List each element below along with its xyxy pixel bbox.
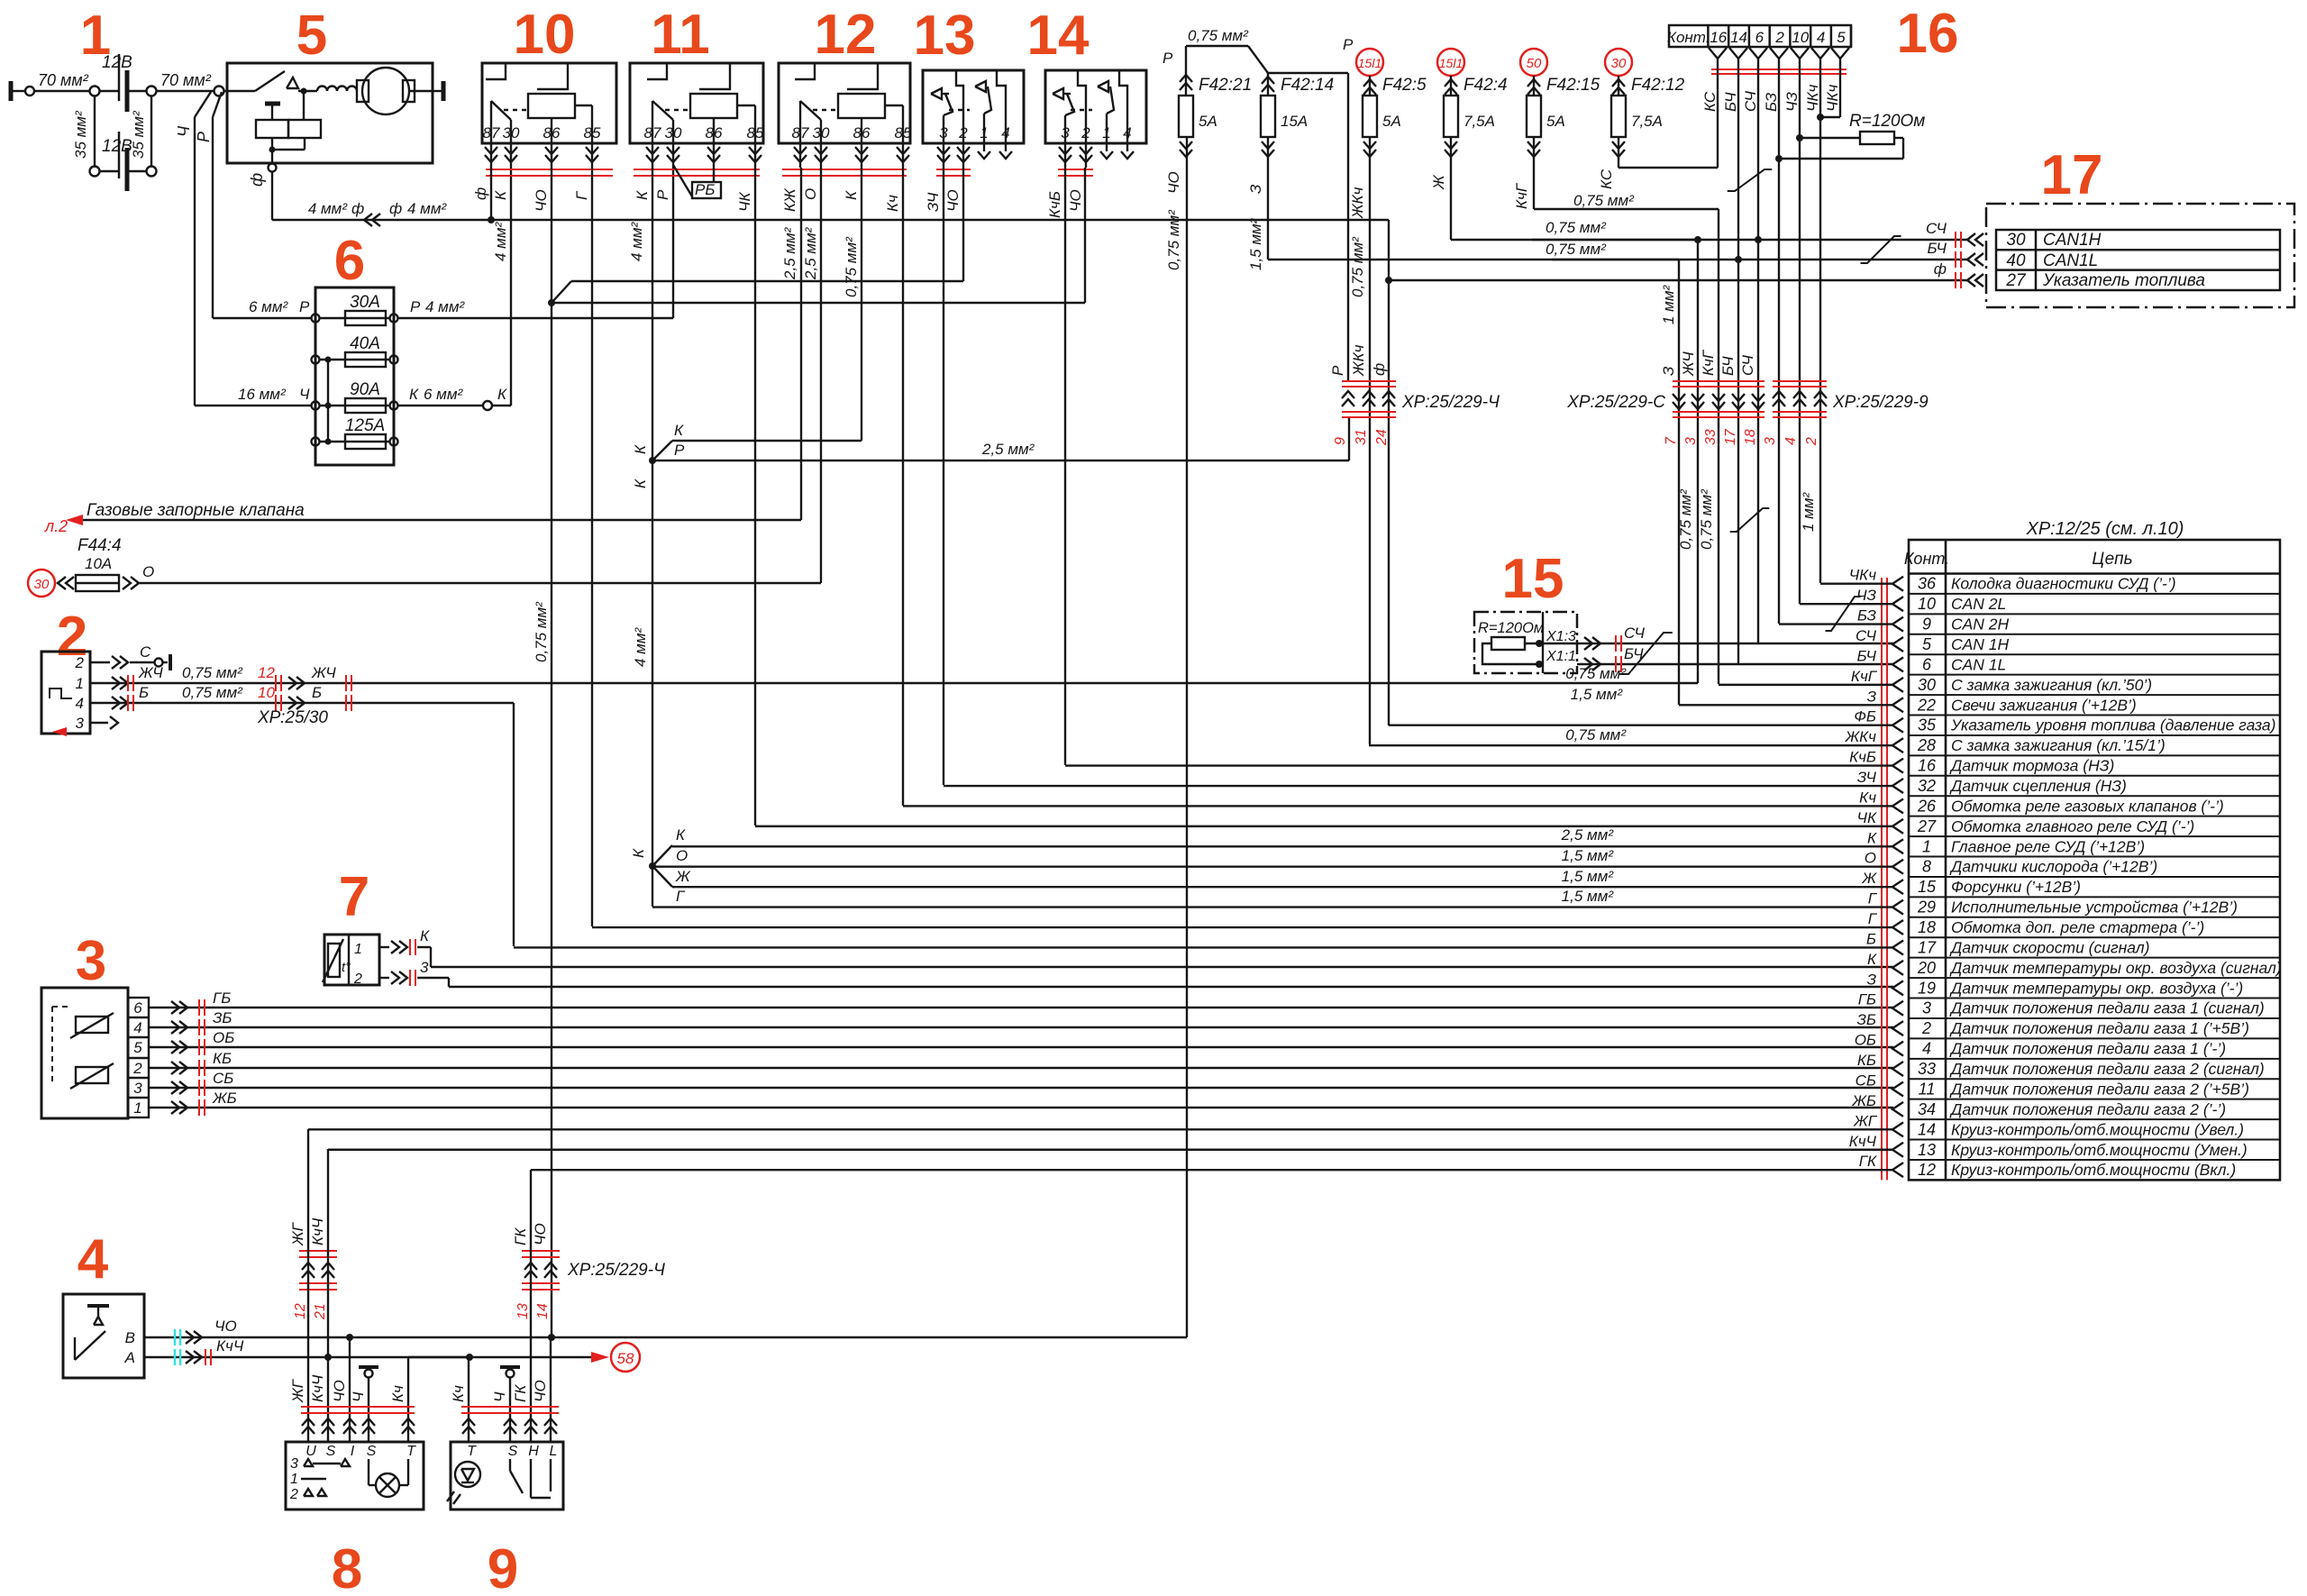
svg-text:10: 10 — [514, 4, 576, 66]
wire БЗ connector16 pin2 to table row9 — [1775, 68, 1783, 624]
connector unit 2 — [41, 652, 90, 736]
svg-text:S: S — [508, 1444, 518, 1459]
svg-text:Кч: Кч — [884, 195, 901, 212]
svg-text:ЧЗ: ЧЗ — [1856, 587, 1876, 604]
unit 9 pin wires with connector marks — [450, 1170, 559, 1442]
wire К branch to relay12-86 — [652, 168, 862, 461]
svg-text:4: 4 — [76, 695, 84, 712]
svg-text:СБ: СБ — [213, 1070, 233, 1087]
svg-text:ЖКч: ЖКч — [1349, 187, 1366, 219]
svg-text:Ч: Ч — [491, 1391, 508, 1402]
wire КчБ to table row 16 — [1065, 749, 1903, 773]
svg-text:2,5 мм²: 2,5 мм² — [1561, 826, 1615, 844]
wire О F44:4 to relay12-30 — [140, 168, 821, 583]
wire ЧК relay11-85 to table row27 — [754, 168, 756, 825]
svg-text:15А: 15А — [1281, 113, 1308, 130]
svg-text:СЧ: СЧ — [1624, 625, 1646, 642]
svg-text:125А: 125А — [345, 416, 385, 435]
wire ЧКч connector16 pin5 — [1820, 68, 1840, 117]
svg-text:30: 30 — [34, 577, 50, 592]
svg-text:13: 13 — [914, 5, 976, 67]
svg-text:10: 10 — [1792, 29, 1809, 46]
svg-text:Газовые запорные клапана: Газовые запорные клапана — [87, 501, 305, 520]
svg-text:4: 4 — [78, 1228, 109, 1290]
svg-text:ЧО: ЧО — [214, 1318, 237, 1335]
svg-text:85: 85 — [584, 124, 601, 141]
wire З sensor7 to table row19 — [379, 959, 1893, 987]
svg-text:10: 10 — [258, 684, 275, 701]
switch unit 4 — [63, 1294, 144, 1378]
svg-text:Ж: Ж — [1430, 174, 1447, 190]
svg-text:4 мм²: 4 мм² — [308, 200, 348, 217]
fuse box 6 — [312, 287, 398, 465]
fuse F42:5 5А with terminal 15/1 — [1349, 49, 1427, 297]
wire Р feed to fuses F42:21 F42:14 — [1163, 27, 1354, 381]
svg-text:ЧО: ЧО — [532, 1380, 549, 1402]
svg-text:30: 30 — [813, 124, 830, 141]
svg-text:Свечи зажигания (’+12В’): Свечи зажигания (’+12В’) — [1951, 696, 2137, 714]
svg-text:К: К — [409, 386, 419, 403]
svg-text:л.2: л.2 — [44, 517, 68, 535]
svg-text:35 мм²: 35 мм² — [72, 110, 89, 159]
svg-text:5А: 5А — [1382, 113, 1401, 130]
svg-text:ЧК: ЧК — [1857, 809, 1877, 826]
svg-text:4 мм²: 4 мм² — [628, 222, 645, 261]
svg-text:Б: Б — [139, 684, 149, 701]
svg-text:РБ: РБ — [695, 181, 715, 198]
svg-text:С замка зажигания (кл.’15/1’): С замка зажигания (кл.’15/1’) — [1951, 736, 2166, 754]
svg-text:16 мм²: 16 мм² — [238, 386, 287, 403]
wire З to table row 19 — [1828, 971, 1903, 995]
svg-text:6 мм²: 6 мм² — [249, 298, 288, 315]
svg-text:7,5А: 7,5А — [1464, 113, 1495, 130]
svg-text:F42:5: F42:5 — [1382, 76, 1427, 95]
svg-text:ЧО: ЧО — [331, 1380, 348, 1402]
wire ФБ to table row 35 — [1389, 708, 1903, 733]
wire КС F42:12 to connector 16 — [1619, 137, 1718, 168]
svg-text:ГК: ГК — [512, 1384, 529, 1402]
shield slash CAN near unit17 — [1861, 236, 1901, 263]
svg-text:Датчик положения педали газа 1: Датчик положения педали газа 1 (сигнал) — [1949, 999, 2265, 1017]
relay 10 — [482, 63, 616, 176]
svg-text:X1:3: X1:3 — [1546, 629, 1576, 644]
svg-text:ф: ф — [472, 187, 489, 200]
svg-text:КчЧ: КчЧ — [1849, 1133, 1877, 1150]
wire ЧО lower branch to switch14 pin2 — [552, 168, 1085, 303]
relay 10 wire labels — [472, 187, 590, 212]
svg-text:4 мм²: 4 мм² — [407, 200, 447, 217]
wire КчГ F42:15 to XP:25/229-С pin33 — [1534, 137, 1719, 684]
wire Кч relay12-85 to table row26 — [902, 168, 904, 806]
wire БЧ to table row 6 — [1828, 647, 1903, 671]
wire size labels near table — [1561, 665, 1628, 905]
svg-text:Ч: Ч — [175, 125, 193, 137]
wire З to table row 22 — [1679, 688, 1903, 712]
svg-text:9: 9 — [488, 1538, 518, 1596]
wire ф starter to relay10-87 and XP connector — [272, 168, 1389, 725]
svg-text:3: 3 — [76, 930, 106, 992]
wire ЧО bus from switch4 B to F42:21 — [144, 137, 1187, 1345]
svg-text:ХР:25/30: ХР:25/30 — [257, 708, 328, 727]
svg-text:А: А — [124, 1349, 135, 1366]
svg-text:24: 24 — [1374, 429, 1390, 446]
wire Б to table row 17 — [514, 930, 1903, 954]
svg-text:ОБ: ОБ — [1855, 1032, 1876, 1049]
wire Р branch to XP:25/229-Ч pin9 — [652, 416, 1349, 461]
svg-text:31: 31 — [1354, 429, 1369, 445]
svg-text:Ж: Ж — [1861, 870, 1877, 887]
svg-text:ЖГ: ЖГ — [289, 1378, 306, 1403]
wire CAN1L БЧ to unit17 — [1546, 241, 1967, 260]
svg-text:13: 13 — [515, 1303, 531, 1319]
starter unit 5 — [227, 63, 443, 187]
svg-text:20: 20 — [1917, 959, 1936, 977]
svg-text:БЧ: БЧ — [1856, 647, 1876, 664]
svg-text:6: 6 — [334, 230, 365, 292]
svg-text:5А: 5А — [1546, 113, 1565, 130]
fuse F42:21 5А — [1165, 46, 1252, 270]
connector XP:25/229-Ч bottom, wires ГК ЧО — [512, 1223, 665, 1319]
svg-text:0,75 мм²: 0,75 мм² — [1565, 665, 1627, 682]
svg-text:XP:25/229-С: XP:25/229-С — [1566, 393, 1665, 412]
svg-text:30: 30 — [1918, 676, 1936, 694]
svg-text:28: 28 — [1917, 736, 1936, 754]
svg-text:КБ: КБ — [1857, 1052, 1876, 1069]
wire ЖКч F42:5 to table row28 — [1369, 137, 1371, 744]
svg-text:ЖБ: ЖБ — [212, 1090, 237, 1107]
svg-text:ЖКч: ЖКч — [1845, 728, 1877, 745]
connector XP:25/229-Ч bottom, wires ЖГ КчЧ — [289, 1218, 337, 1320]
svg-text:11: 11 — [1919, 1080, 1936, 1098]
svg-text:О: О — [802, 188, 819, 200]
terminator R=120Ом top — [1779, 112, 1925, 159]
wire ЧК to table row 27 — [755, 809, 1903, 834]
wire ЖБ pedal sensor to table — [149, 1090, 1893, 1116]
wire О to table row 8 — [652, 850, 1903, 874]
svg-text:I: I — [351, 1444, 355, 1459]
wire Р from battery — [195, 92, 222, 318]
svg-text:ЧКч: ЧКч — [1804, 85, 1821, 112]
svg-text:1,5 мм²: 1,5 мм² — [1562, 868, 1615, 885]
svg-text:КчГ: КчГ — [1700, 349, 1717, 376]
shield slashes near table rows 10 9 — [1826, 597, 1861, 631]
svg-text:30: 30 — [665, 124, 682, 141]
svg-text:ф: ф — [1371, 363, 1388, 376]
wire К sensor7 to table row20 — [379, 927, 1893, 967]
svg-text:34: 34 — [1918, 1100, 1936, 1118]
unit 8 pin wires with connector marks — [289, 1129, 470, 1442]
svg-text:Ч: Ч — [299, 386, 310, 403]
svg-text:2: 2 — [132, 1060, 142, 1077]
svg-text:CAN 1H: CAN 1H — [1951, 635, 2010, 653]
svg-text:11: 11 — [651, 4, 710, 66]
svg-text:0,75 мм²: 0,75 мм² — [1565, 726, 1627, 743]
svg-text:F42:21: F42:21 — [1199, 76, 1252, 95]
wire КС connector16 pin16 — [1717, 68, 1719, 168]
relay 12 wire labels — [781, 187, 901, 297]
svg-text:Р: Р — [195, 132, 213, 142]
svg-text:ОБ: ОБ — [213, 1029, 234, 1046]
svg-text:0,75 мм²: 0,75 мм² — [182, 684, 243, 701]
svg-text:БЗ: БЗ — [1857, 607, 1877, 625]
wire ЗБ to table row 2 — [1828, 1011, 1903, 1035]
fuse F42:15 5А with terminal 50 — [1513, 49, 1600, 209]
fuse F42:12 7,5А with terminal 30 — [1598, 49, 1685, 189]
svg-text:15: 15 — [1918, 878, 1937, 896]
svg-text:К: К — [497, 386, 507, 403]
svg-text:5: 5 — [296, 5, 327, 67]
svg-text:К: К — [674, 422, 684, 439]
wire КчЧ to table row 13 — [328, 1133, 1903, 1157]
wire ЖКч to table row 28 — [1369, 728, 1903, 752]
wire КчБ switch14-3 to table row16 — [1064, 168, 1066, 765]
svg-text:Р: Р — [1163, 50, 1173, 67]
indicator unit 9 — [447, 1442, 563, 1509]
svg-text:85: 85 — [895, 124, 912, 141]
svg-text:ГБ: ГБ — [1858, 991, 1876, 1008]
svg-text:CAN 2L: CAN 2L — [1951, 595, 2006, 613]
svg-text:СБ: СБ — [1856, 1072, 1876, 1089]
wire СЧ to table row 5 — [1828, 627, 1903, 652]
unit17 wire entries — [1926, 220, 1983, 288]
svg-text:87: 87 — [792, 124, 809, 141]
svg-text:ЖГ: ЖГ — [289, 1221, 306, 1246]
wire comp2 pin3 stub — [90, 716, 118, 729]
svg-text:0,75 мм²: 0,75 мм² — [1677, 488, 1694, 550]
svg-text:Форсунки (’+12В’): Форсунки (’+12В’) — [1951, 878, 2081, 896]
svg-text:ЗЧ: ЗЧ — [925, 192, 942, 212]
wire БЗ to table row 9 — [1779, 607, 1903, 632]
svg-text:Р: Р — [654, 189, 671, 200]
svg-text:12В: 12В — [102, 53, 132, 72]
svg-text:Датчик тормоза (НЗ): Датчик тормоза (НЗ) — [1949, 757, 2114, 775]
node К fan-out to К,О,Ж,Г — [630, 826, 691, 907]
svg-text:Кч: Кч — [450, 1385, 467, 1402]
reference line gas shutoff valves (to sheet 2) — [44, 168, 801, 535]
svg-text:S: S — [326, 1444, 336, 1459]
svg-text:17: 17 — [1723, 428, 1738, 445]
svg-text:Р: Р — [299, 298, 310, 315]
svg-text:86: 86 — [853, 124, 871, 141]
switch 14 wire labels — [1046, 189, 1084, 218]
wire К to table row 20 — [1828, 951, 1903, 975]
wire Б comp2 pin4 to table row17 — [90, 684, 514, 946]
svg-text:30А: 30А — [350, 293, 380, 312]
svg-text:3: 3 — [420, 959, 429, 976]
svg-text:6: 6 — [1922, 655, 1932, 673]
wire ЗЧ switch13-3 to table row32 — [943, 168, 944, 785]
svg-text:КчГ: КчГ — [1851, 668, 1878, 685]
svg-text:T: T — [467, 1444, 477, 1459]
wire К 6мм² fuse90A to relay10 pin30 — [397, 168, 511, 410]
svg-text:0,75 мм²: 0,75 мм² — [843, 236, 860, 297]
svg-text:К: К — [632, 444, 649, 454]
svg-text:CAN1L: CAN1L — [2043, 251, 2098, 270]
svg-text:2,5 мм²: 2,5 мм² — [981, 441, 1035, 458]
svg-text:ЧКч: ЧКч — [1824, 85, 1841, 112]
wire ф to unit17 row27 — [1385, 277, 1967, 284]
svg-text:Колодка диагностики СУД (’-’): Колодка диагностики СУД (’-’) — [1951, 575, 2176, 593]
svg-text:1: 1 — [290, 1472, 298, 1487]
wire КчЧ from switch4 A to terminal 58 — [144, 1337, 640, 1372]
svg-text:Датчик температуры окр. воздух: Датчик температуры окр. воздуха (’-’) — [1949, 979, 2243, 997]
svg-text:CAN 1L: CAN 1L — [1951, 655, 2006, 673]
svg-text:1,5 мм²: 1,5 мм² — [1562, 888, 1615, 905]
svg-text:Кч: Кч — [389, 1385, 406, 1402]
svg-text:13: 13 — [1918, 1141, 1936, 1159]
relay 11 — [630, 63, 764, 176]
svg-text:ЖГ: ЖГ — [1853, 1112, 1878, 1129]
control unit 8 — [286, 1442, 424, 1509]
wire Ж F42:4 to XP:25/229-С pin3 — [1451, 137, 1701, 243]
svg-text:21: 21 — [313, 1303, 328, 1320]
svg-text:0,75 мм²: 0,75 мм² — [1165, 209, 1182, 270]
table ХР:12/25 frame — [1904, 540, 2280, 1180]
svg-text:Р: Р — [1329, 365, 1346, 376]
battery 1 (two 12V cells) — [11, 53, 227, 191]
svg-text:32: 32 — [1918, 777, 1936, 795]
svg-text:10: 10 — [1918, 595, 1936, 613]
svg-text:С замка зажигания (кл.’50’): С замка зажигания (кл.’50’) — [1951, 676, 2152, 694]
svg-text:1: 1 — [1102, 124, 1110, 141]
svg-text:О: О — [1865, 850, 1876, 867]
svg-text:2: 2 — [289, 1487, 298, 1502]
connector XP:25/229-9 (БЗ ЧЗ ЧКч) — [1763, 381, 1929, 446]
svg-text:33: 33 — [1918, 1060, 1936, 1078]
svg-text:ЧКч: ЧКч — [1849, 567, 1876, 584]
svg-text:Цепь: Цепь — [2092, 550, 2132, 569]
svg-text:70 мм²: 70 мм² — [38, 71, 89, 89]
svg-text:Датчик положения педали газа 2: Датчик положения педали газа 2 (’-’) — [1949, 1100, 2226, 1118]
wire Ч fusebox feed 16мм² — [195, 386, 312, 406]
svg-text:19: 19 — [1918, 979, 1936, 997]
svg-text:ЖЧ: ЖЧ — [311, 664, 336, 681]
svg-text:Указатель топлива: Указатель топлива — [2042, 271, 2205, 290]
svg-text:5: 5 — [1837, 29, 1846, 46]
svg-text:4 мм²: 4 мм² — [425, 298, 465, 315]
wire Г to table row 29 — [652, 890, 1903, 915]
table rows text — [1917, 575, 2282, 1179]
svg-text:0,75 мм²: 0,75 мм² — [533, 601, 550, 662]
svg-text:Обмотка главного реле СУД (’-’: Обмотка главного реле СУД (’-’) — [1951, 817, 2194, 835]
svg-text:15l1: 15l1 — [1439, 56, 1463, 70]
svg-text:ХР:12/25 (см. л.10): ХР:12/25 (см. л.10) — [2026, 519, 2184, 539]
svg-text:Главное реле СУД (’+12В’): Главное реле СУД (’+12В’) — [1951, 837, 2145, 855]
svg-text:27: 27 — [1917, 817, 1937, 835]
svg-text:1 мм²: 1 мм² — [1660, 285, 1677, 324]
svg-text:Б: Б — [1866, 930, 1876, 947]
svg-text:4: 4 — [1817, 29, 1825, 46]
svg-text:КБ: КБ — [213, 1050, 232, 1067]
wire ОБ to table row 4 — [1828, 1032, 1903, 1056]
svg-text:29: 29 — [1917, 898, 1936, 917]
svg-text:ЗБ: ЗБ — [213, 1009, 233, 1026]
svg-text:БЧ: БЧ — [1719, 356, 1737, 376]
shield slash CAN pair top — [1728, 169, 1773, 191]
svg-text:К: К — [1867, 829, 1877, 846]
svg-text:CAN1H: CAN1H — [2043, 231, 2102, 250]
wire Г relay10-85 to table row18 — [591, 168, 593, 926]
svg-text:U: U — [305, 1444, 316, 1459]
wire СБ to table row 11 — [1828, 1072, 1903, 1096]
relay 11 РБ label box — [673, 165, 721, 198]
svg-text:СЧ: СЧ — [1856, 627, 1877, 644]
svg-text:0,75 мм²: 0,75 мм² — [1546, 219, 1607, 236]
svg-text:CAN 2H: CAN 2H — [1951, 616, 2010, 634]
svg-text:3: 3 — [76, 715, 85, 732]
wire СБ pedal sensor to table — [149, 1070, 1893, 1096]
svg-text:R=120Ом: R=120Ом — [1478, 620, 1544, 636]
shield slash rows 5-6 — [1619, 633, 1673, 674]
svg-text:Ж: Ж — [675, 868, 691, 885]
wire ГК to table row 12 — [531, 1153, 1903, 1177]
fuse F44:4 with terminal 30 — [28, 536, 154, 597]
svg-text:Конт.: Конт. — [1667, 29, 1710, 46]
svg-text:Указатель уровня топлива (давл: Указатель уровня топлива (давление газа) — [1950, 716, 2275, 734]
wire Ч from battery — [175, 92, 211, 406]
svg-text:К: К — [1867, 951, 1877, 968]
svg-text:6: 6 — [133, 999, 142, 1017]
svg-text:6: 6 — [1755, 29, 1764, 46]
wire З F42:14 to XP:25/229-С pin7 — [1268, 137, 1679, 705]
switch unit 13 — [923, 70, 1024, 176]
svg-text:5: 5 — [133, 1039, 142, 1056]
svg-text:КС: КС — [1701, 91, 1719, 112]
svg-text:14: 14 — [535, 1303, 551, 1319]
svg-text:О: О — [676, 847, 688, 864]
svg-text:2: 2 — [958, 124, 968, 141]
temperature sensor 7 — [323, 935, 379, 987]
svg-text:КчЧ: КчЧ — [309, 1218, 326, 1245]
wire ЧКч to table row 36 — [1820, 567, 1903, 591]
svg-text:30: 30 — [2006, 231, 2026, 250]
svg-text:СЧ: СЧ — [1739, 354, 1756, 376]
svg-text:S: S — [367, 1444, 377, 1459]
svg-text:Датчик положения педали газа 2: Датчик положения педали газа 2 (сигнал) — [1949, 1060, 2265, 1078]
svg-text:14: 14 — [1730, 29, 1747, 46]
svg-text:10А: 10А — [85, 555, 112, 572]
svg-text:ЗБ: ЗБ — [1857, 1011, 1877, 1028]
svg-text:XP:25/229-Ч: XP:25/229-Ч — [567, 1261, 665, 1280]
svg-text:70 мм²: 70 мм² — [160, 71, 212, 89]
svg-text:27: 27 — [2005, 271, 2027, 290]
svg-text:ЧЗ: ЧЗ — [1783, 92, 1801, 112]
wire СЧ unit15 to table row5 — [1577, 625, 1893, 652]
svg-text:К: К — [630, 848, 647, 858]
svg-text:Датчик скорости (сигнал): Датчик скорости (сигнал) — [1949, 938, 2150, 956]
svg-text:36: 36 — [1918, 575, 1937, 593]
svg-text:87: 87 — [644, 124, 661, 141]
svg-text:8: 8 — [332, 1538, 362, 1596]
wire СЧ connector16 pin6 to table row5 — [1755, 68, 1762, 643]
wire ЧО upper branch to switch13 pin2 — [552, 168, 963, 303]
svg-text:Датчик температуры окр. воздух: Датчик температуры окр. воздуха (сигнал) — [1949, 959, 2282, 977]
svg-text:Конт.: Конт. — [1904, 550, 1949, 568]
svg-text:0,75 мм²: 0,75 мм² — [1188, 27, 1249, 44]
wire Ж to table row 15 — [672, 870, 1903, 894]
svg-text:С: С — [140, 643, 151, 661]
svg-text:ГК: ГК — [1859, 1153, 1877, 1170]
svg-text:3: 3 — [290, 1456, 298, 1472]
svg-text:К: К — [632, 479, 649, 488]
svg-text:1: 1 — [133, 1099, 141, 1117]
svg-text:ЧО: ЧО — [532, 1223, 549, 1245]
wire КБ pedal sensor to table — [149, 1050, 1893, 1076]
switch 13 wire labels — [925, 189, 962, 212]
wire ЖЧ comp2 pin1 to F42:4 net — [90, 240, 1698, 691]
svg-text:5А: 5А — [1199, 113, 1217, 130]
svg-text:КС: КС — [1598, 169, 1615, 189]
